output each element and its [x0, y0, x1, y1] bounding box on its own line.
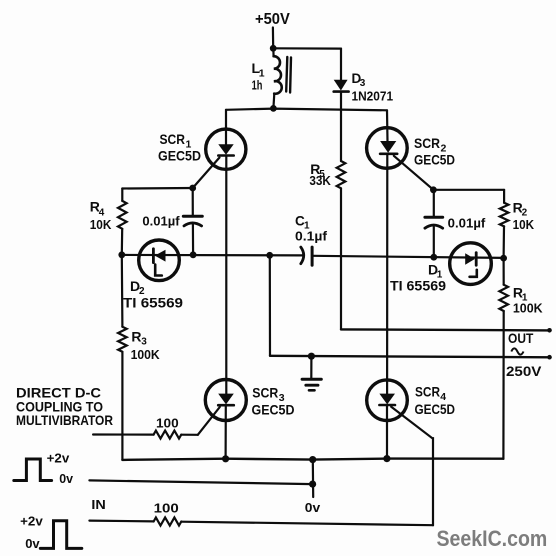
wire SCR3 gate diagonal	[198, 407, 220, 435]
svg-text:10K: 10K	[90, 217, 112, 232]
thyristor SCR3	[205, 380, 246, 421]
wire SCR1 cathode to SCR3 anode	[225, 156, 227, 394]
svg-text:0.1µf: 0.1µf	[295, 229, 328, 244]
node SCR4 cathode	[383, 455, 390, 462]
svg-text:0v: 0v	[25, 536, 40, 551]
node C1 left junction	[266, 252, 273, 259]
svg-text:R: R	[131, 329, 141, 345]
svg-text:+50V: +50V	[255, 11, 290, 28]
thyristor SCR1	[206, 129, 246, 169]
wire SCR4 gate to IN line	[391, 407, 433, 525]
svg-text:GEC5D: GEC5D	[158, 148, 201, 164]
node SCR1 gate junction	[189, 185, 196, 192]
diode D2 circled	[139, 240, 180, 281]
node cap left bottom	[190, 251, 197, 258]
svg-text:SCR: SCR	[160, 131, 186, 147]
svg-text:250V: 250V	[506, 363, 542, 379]
svg-text:33K: 33K	[309, 173, 331, 188]
wire SCR2 anode	[386, 110, 389, 141]
svg-text:GEC5D: GEC5D	[252, 402, 295, 418]
resistor R1	[503, 258, 505, 285]
svg-text:SeekIC.com: SeekIC.com	[437, 526, 548, 551]
node SCR2 gate junction	[430, 186, 437, 193]
node 0v column	[309, 456, 316, 463]
thyristor SCR2	[367, 128, 408, 169]
resistor R4	[121, 189, 123, 201]
svg-text:TI 65569: TI 65569	[390, 279, 446, 294]
wire main line right of C1	[313, 256, 503, 258]
node ground junction	[308, 353, 315, 360]
thyristor SCR4	[367, 380, 408, 421]
svg-text:10K: 10K	[513, 217, 535, 232]
wire gate branch left	[122, 187, 192, 190]
capacitor 0.01uf right	[433, 190, 435, 216]
svg-text:1N2071: 1N2071	[352, 89, 394, 104]
node SCR3 cathode	[222, 455, 229, 462]
svg-text:GEC5D: GEC5D	[415, 401, 456, 417]
waveform pulse upper	[14, 459, 52, 481]
svg-text:SCR: SCR	[414, 135, 440, 151]
svg-text:+2v: +2v	[20, 513, 43, 528]
svg-text:+2v: +2v	[47, 451, 70, 466]
wire IN line left	[89, 519, 153, 522]
wire 0v line	[89, 480, 312, 484]
svg-text:1h: 1h	[252, 77, 263, 92]
svg-text:100: 100	[156, 416, 179, 431]
svg-text:GEC5D: GEC5D	[414, 152, 455, 168]
wire SCR1 gate	[193, 158, 220, 189]
capacitor 0.01uf left	[192, 188, 194, 215]
node R4 bottom	[118, 251, 125, 258]
wire output line lower	[270, 356, 551, 358]
svg-text:MULTIVIBRATOR: MULTIVIBRATOR	[16, 412, 113, 428]
svg-text:TI 65569: TI 65569	[123, 296, 183, 311]
node supply junction	[270, 45, 277, 52]
diode D1 circled	[450, 243, 492, 285]
wire R5 to output line	[340, 188, 342, 329]
wire SCR4 cathode	[386, 405, 388, 459]
capacitor C1	[301, 247, 304, 264]
svg-text:3: 3	[141, 337, 147, 348]
resistor R5	[337, 161, 346, 188]
svg-text:100: 100	[154, 501, 179, 516]
svg-text:0.01µf: 0.01µf	[142, 214, 180, 229]
resistor 100 upper	[154, 431, 182, 439]
svg-text:100K: 100K	[513, 301, 543, 316]
resistor 100 IN	[154, 518, 182, 526]
wire +50V supply stem	[272, 28, 275, 49]
wire multivibrator input left	[93, 433, 154, 435]
wire 0v stub	[312, 460, 315, 497]
wire SCR3 cathode	[225, 405, 227, 459]
svg-text:SCR: SCR	[415, 384, 440, 400]
waveform pulse lower	[40, 521, 82, 549]
wire D3 anode	[340, 49, 342, 80]
ground	[310, 356, 312, 379]
wire bottom rail	[122, 459, 503, 460]
wire top rail SCR1-SCR2	[226, 109, 387, 111]
wire SCR2 cathode to SCR4 anode	[386, 154, 388, 394]
svg-text:0v: 0v	[59, 471, 74, 486]
node D1 right junction	[500, 255, 507, 262]
resistor R3	[121, 255, 124, 327]
wire D3 cathode to R5	[340, 110, 342, 161]
core of L1	[286, 57, 287, 92]
svg-text:0.01µf: 0.01µf	[448, 215, 486, 230]
resistor R2	[503, 190, 505, 203]
svg-text:SCR: SCR	[252, 385, 278, 401]
svg-text:IN: IN	[91, 497, 105, 512]
diode D3	[334, 80, 348, 91]
node L1 bottom junction	[270, 105, 277, 112]
wire D3 cathode to rail	[340, 92, 342, 110]
wire output line upper	[341, 329, 551, 330]
svg-text:OUT: OUT	[508, 331, 534, 346]
inductor L1	[272, 48, 275, 56]
symbol AC squiggle	[511, 348, 523, 354]
wire main line left of C1	[122, 254, 303, 257]
wire C1 junction down	[269, 255, 271, 355]
wire SCR1 anode	[225, 110, 227, 145]
svg-text:3: 3	[360, 78, 366, 89]
svg-text:100K: 100K	[131, 347, 161, 362]
node 0v line end	[309, 481, 316, 488]
wire R1 to bottom rail	[502, 311, 505, 459]
svg-text:0v: 0v	[305, 500, 321, 515]
node D1 left junction	[430, 254, 437, 261]
wire IN line right	[181, 522, 433, 526]
wire SCR2 gate	[394, 156, 434, 190]
wire gate branch right	[433, 189, 504, 191]
wire supply to D3 anode	[273, 47, 341, 49]
